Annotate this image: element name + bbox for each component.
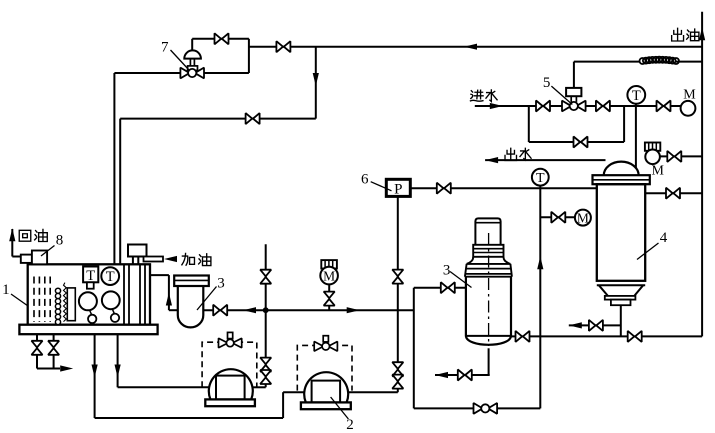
- svg-text:5: 5: [543, 75, 551, 91]
- svg-text:M: M: [577, 211, 589, 226]
- svg-text:7: 7: [161, 40, 169, 56]
- svg-text:4: 4: [660, 230, 668, 246]
- svg-text:1: 1: [2, 282, 10, 298]
- svg-text:P: P: [394, 181, 402, 197]
- svg-text:2: 2: [346, 417, 354, 433]
- svg-text:8: 8: [56, 233, 64, 249]
- svg-text:M: M: [323, 269, 335, 284]
- svg-text:6: 6: [361, 172, 369, 188]
- svg-text:T: T: [106, 269, 115, 285]
- svg-text:M: M: [651, 164, 664, 179]
- svg-text:M: M: [683, 87, 696, 102]
- svg-text:3: 3: [217, 276, 225, 292]
- svg-text:T: T: [536, 171, 545, 186]
- svg-text:T: T: [632, 88, 641, 104]
- svg-text:3: 3: [443, 263, 451, 279]
